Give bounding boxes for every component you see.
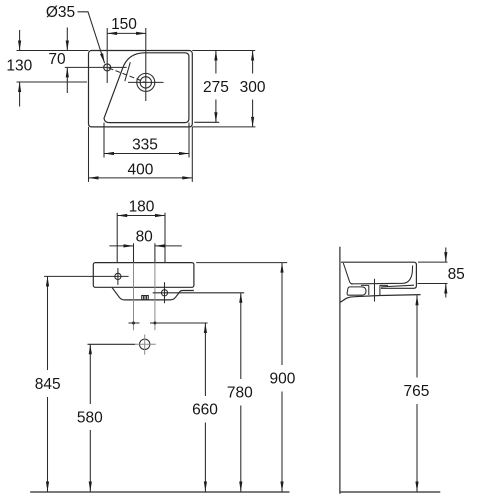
svg-text:580: 580	[77, 410, 103, 427]
svg-text:275: 275	[203, 79, 229, 96]
svg-text:335: 335	[132, 137, 158, 154]
svg-text:150: 150	[111, 16, 137, 33]
svg-text:Ø35: Ø35	[46, 4, 75, 21]
svg-text:900: 900	[269, 371, 295, 388]
svg-text:765: 765	[403, 383, 429, 400]
svg-text:130: 130	[6, 58, 32, 75]
svg-text:70: 70	[48, 51, 66, 68]
svg-text:85: 85	[448, 266, 465, 283]
svg-text:780: 780	[227, 385, 253, 402]
svg-text:80: 80	[136, 228, 154, 245]
svg-text:845: 845	[35, 376, 61, 393]
svg-text:660: 660	[192, 402, 218, 419]
svg-text:400: 400	[127, 162, 153, 179]
svg-text:300: 300	[240, 79, 266, 96]
svg-text:180: 180	[129, 198, 155, 215]
